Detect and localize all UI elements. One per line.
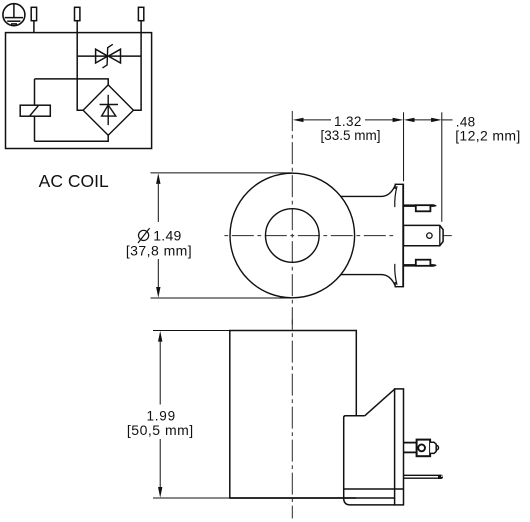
svg-text:AC COIL: AC COIL [39,171,109,191]
svg-text:1.32: 1.32 [334,114,362,129]
svg-text:[50,5 mm]: [50,5 mm] [127,422,194,438]
svg-text:[12,2 mm]: [12,2 mm] [455,128,520,144]
svg-text:1.49: 1.49 [153,228,181,244]
svg-text:[33.5 mm]: [33.5 mm] [320,128,380,143]
svg-text:[37,8 mm]: [37,8 mm] [126,243,192,259]
